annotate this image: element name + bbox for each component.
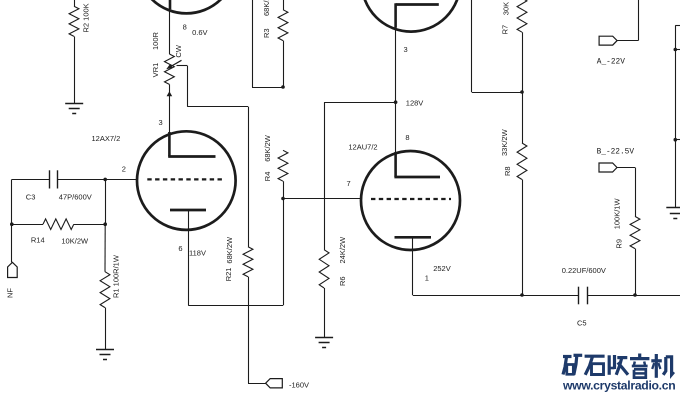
svg-text:A_-22V: A_-22V: [597, 59, 625, 67]
wiper wire down-right to R21 column: [187, 66, 248, 247]
V1 cathode: [170, 209, 206, 212]
svg-text:68K/2W: 68K/2W: [263, 134, 272, 162]
resistor R14: [12, 219, 105, 230]
svg-text:118V: 118V: [189, 249, 206, 258]
capacitor C5: [579, 287, 588, 305]
wire VR1 bottom to V1 plate with up-arrow: [167, 84, 173, 132]
svg-text:R8: R8: [503, 166, 512, 176]
label 68K/2W (R3): [262, 0, 271, 16]
label VR1: [151, 63, 160, 78]
port B_-22.5V (flag right): [599, 163, 636, 216]
voltage label 128V: [406, 98, 424, 107]
label R2 100K: [82, 3, 91, 32]
V2 plate: [394, 152, 440, 177]
svg-text:3: 3: [159, 118, 163, 127]
label C5: [577, 318, 587, 327]
label 12AX7/2: [92, 134, 121, 143]
tube V2a upper triode (partial): [362, 0, 461, 32]
label 100R: [151, 31, 160, 50]
label R7: [501, 25, 510, 35]
resistor R4: [278, 150, 288, 198]
VR1 wiper arrow: [166, 60, 187, 69]
label 68K/2W (R21): [225, 236, 234, 264]
potentiometer VR1 body: [165, 54, 175, 84]
port -160V (flag left): [266, 379, 283, 388]
label R6: [338, 276, 347, 286]
svg-text:R3: R3: [262, 28, 271, 38]
svg-text:B_-22.5V: B_-22.5V: [597, 148, 635, 156]
svg-text:R6: R6: [338, 276, 347, 286]
svg-text:47P/600V: 47P/600V: [59, 192, 92, 201]
svg-text:100K/1W: 100K/1W: [613, 198, 622, 230]
capacitor C3: [12, 170, 105, 188]
svg-text:R21: R21: [224, 268, 233, 282]
right bus wire: [675, 25, 680, 208]
svg-text:100R: 100R: [151, 31, 160, 50]
label R1 100R/1W: [111, 254, 120, 298]
junction right bus b: [674, 138, 678, 142]
svg-text:R4: R4: [263, 172, 272, 182]
svg-text:C3: C3: [26, 192, 36, 201]
wire tap to left riser: [472, 0, 523, 93]
label R8: [503, 166, 512, 176]
wire to NF port: [11, 224, 13, 262]
svg-text:24K/2W: 24K/2W: [338, 236, 347, 264]
V2a cathode: [396, 3, 439, 28]
label 30K: [501, 2, 510, 15]
svg-text:3: 3: [404, 45, 408, 54]
voltage label 0.6V: [192, 28, 207, 37]
label 68K/2W (R4): [263, 134, 272, 162]
wire to -160V port: [248, 305, 266, 383]
svg-text:2: 2: [122, 165, 126, 174]
label R9: [614, 239, 623, 249]
V2 grid (dashed): [371, 198, 451, 200]
label R3: [262, 28, 271, 38]
wire V1 grid to C3 node: [105, 179, 137, 181]
svg-text:R1 100R/1W: R1 100R/1W: [111, 254, 120, 298]
ground under R6: [315, 338, 333, 348]
V1 cathode lead: [188, 210, 190, 305]
wire C5 right: [587, 295, 680, 297]
label R21: [224, 268, 233, 282]
svg-text:VR1: VR1: [151, 63, 160, 78]
wire tube V1a cathode to VR1: [169, 9, 171, 54]
label R14: [31, 236, 45, 245]
watermark logo text: [563, 354, 674, 378]
tube V2 12AU7/2 envelope: [361, 151, 460, 250]
svg-text:www.crystalradio.cn: www.crystalradio.cn: [562, 379, 675, 393]
resistor R1: [100, 224, 110, 349]
junction 128V node: [394, 100, 398, 104]
svg-text:R2 100K: R2 100K: [82, 3, 91, 32]
label NF: [6, 288, 15, 298]
wire grid node down: [105, 179, 107, 224]
label A_-22V: [597, 59, 625, 67]
junction R14 left: [10, 222, 14, 226]
svg-text:33K/2W: 33K/2W: [500, 128, 509, 156]
V1 grid (dashed): [147, 178, 225, 180]
voltage label 118V: [189, 249, 206, 258]
label CW: [174, 44, 183, 57]
junction R7/R8 tap: [520, 90, 524, 94]
wire V2 grid: [283, 198, 361, 200]
resistor R8: [517, 92, 527, 295]
label R4: [263, 172, 272, 182]
ground under R2: [65, 104, 83, 114]
pin number 7 (V2 grid): [347, 179, 351, 188]
svg-text:0.22UF/600V: 0.22UF/600V: [562, 266, 606, 275]
tube V1a upper triode (partial): [137, 0, 236, 13]
resistor R2: [69, 0, 79, 103]
svg-text:0.6V: 0.6V: [192, 28, 207, 37]
pin number 3 (V1 plate): [159, 118, 163, 127]
label 12AU7/2: [348, 143, 377, 152]
resistor R7: [517, 0, 527, 92]
label 33K/2W: [500, 128, 509, 156]
svg-text:1: 1: [425, 274, 429, 283]
svg-text:7: 7: [347, 179, 351, 188]
junction R4 bottom / V2 grid: [281, 197, 285, 201]
pin number 3 (V2a cathode): [404, 45, 408, 54]
junction right bus a: [674, 48, 678, 52]
svg-text:68K/2W: 68K/2W: [225, 236, 234, 264]
voltage label 252V: [433, 264, 451, 273]
pin number 6 (V1 cathode): [178, 244, 182, 253]
V2 cathode: [395, 236, 432, 239]
wire R4 junction down to cathode rail: [283, 199, 285, 306]
label -160V: [289, 381, 309, 390]
label 100K/1W: [613, 198, 622, 230]
pin number 8 (V2 plate): [405, 133, 409, 142]
svg-text:R14: R14: [31, 236, 45, 245]
label 47P/600V: [59, 192, 92, 201]
svg-text:128V: 128V: [406, 98, 424, 107]
svg-text:R7: R7: [501, 25, 510, 35]
tube V1 12AX7/2 envelope: [137, 131, 236, 230]
pin number 1 (V2 cathode): [425, 274, 429, 283]
V2 cathode lead: [412, 237, 414, 295]
svg-text:8: 8: [405, 133, 409, 142]
label B_-22.5V: [597, 148, 635, 156]
svg-text:6: 6: [178, 244, 182, 253]
label 0.22UF/600V: [562, 266, 606, 275]
svg-text:252V: 252V: [433, 264, 451, 273]
port NF (flag down): [8, 262, 18, 277]
ground right bus: [666, 208, 680, 219]
junction R9 bottom: [633, 293, 637, 297]
ground under R1: [96, 350, 114, 360]
wire net to R3/R4 tap: [252, 0, 283, 88]
svg-text:10K/2W: 10K/2W: [61, 237, 89, 246]
svg-text:30K: 30K: [501, 2, 510, 15]
V1 plate: [168, 132, 215, 157]
svg-text:CW: CW: [174, 44, 183, 57]
resistor R9: [630, 216, 640, 295]
svg-text:C5: C5: [577, 318, 587, 327]
label 24K/2W: [338, 236, 347, 264]
pin number 2 (V1 grid): [122, 165, 126, 174]
pin number 8: [183, 23, 187, 32]
wire left leg down: [11, 179, 13, 224]
wire V2a cathode to V2 plate: [395, 28, 397, 152]
resistor R6: [319, 250, 329, 338]
port A_-22V (flag right): [599, 0, 638, 45]
watermark url: [562, 379, 675, 393]
junction R3/R4 tap: [281, 85, 285, 89]
resistor R3: [278, 0, 288, 87]
svg-text:NF: NF: [6, 288, 15, 298]
svg-text:68K/2W: 68K/2W: [262, 0, 271, 16]
wire 128V node to R6 branch: [324, 102, 396, 104]
junction grid node: [103, 178, 107, 182]
junction R8 bottom: [520, 293, 524, 297]
wire R6 branch down: [324, 102, 326, 250]
svg-text:R9: R9: [614, 239, 623, 249]
cathode rail: [188, 305, 283, 307]
cathode lead V1a pin 8: [169, 0, 172, 9]
wire cathode rail to C5: [413, 295, 579, 297]
label C3: [26, 192, 36, 201]
label 10K/2W: [61, 237, 89, 246]
svg-text:12AU7/2: 12AU7/2: [348, 143, 377, 152]
junction R14 right: [103, 222, 107, 226]
svg-text:12AX7/2: 12AX7/2: [92, 134, 121, 143]
svg-text:8: 8: [183, 23, 187, 32]
svg-text:-160V: -160V: [289, 381, 309, 390]
resistor R21: [243, 247, 253, 305]
